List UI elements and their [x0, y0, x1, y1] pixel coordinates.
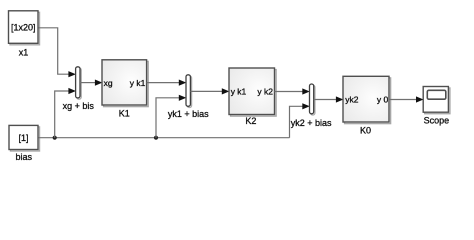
- wire bias branch to mux M2: [156, 98, 179, 138]
- scope block: [423, 87, 450, 114]
- svg-text:x1: x1: [19, 48, 29, 58]
- svg-text:yk2 + bias: yk2 + bias: [291, 118, 332, 128]
- svg-text:xg: xg: [104, 78, 113, 88]
- svg-text:K2: K2: [245, 116, 256, 126]
- subsystem K1: [102, 60, 148, 107]
- svg-text:y k2: y k2: [257, 87, 273, 97]
- wire bias trunk: [39, 137, 290, 139]
- wire K0 to Scope: [389, 99, 416, 101]
- svg-text:[1x20]: [1x20]: [11, 23, 36, 33]
- wire mux M1 to K1: [80, 82, 95, 84]
- subsystem K0: [343, 76, 391, 123]
- constant block x1 [1x20]: [9, 11, 40, 45]
- mux M1: [76, 67, 82, 99]
- svg-text:y 0: y 0: [377, 95, 389, 105]
- svg-text:Scope: Scope: [424, 115, 450, 125]
- constant block bias [1]: [9, 125, 40, 151]
- mux M3: [310, 84, 315, 115]
- subsystem K2: [229, 68, 276, 116]
- junction dot J2: [154, 136, 158, 140]
- wire mux M2 to K2: [190, 90, 222, 92]
- wire mux M3 to K0: [314, 99, 336, 101]
- mux M2: [186, 75, 192, 108]
- svg-text:K0: K0: [360, 126, 371, 136]
- svg-text:[1]: [1]: [18, 133, 28, 143]
- wire x1 to mux M1: [39, 28, 69, 74]
- svg-text:xg + bis: xg + bis: [63, 101, 95, 111]
- wire K1 to mux M2: [147, 82, 179, 84]
- junction dot J1: [53, 136, 57, 140]
- svg-text:y k1: y k1: [130, 78, 146, 88]
- svg-text:yk2: yk2: [345, 95, 359, 105]
- svg-text:bias: bias: [15, 152, 32, 162]
- wire K2 to mux M3: [275, 91, 303, 93]
- wire bias branch to mux M3: [290, 106, 303, 137]
- svg-text:yk1 + bias: yk1 + bias: [168, 109, 209, 119]
- svg-text:K1: K1: [119, 109, 130, 119]
- wire bias branch to mux M1: [55, 91, 69, 138]
- svg-text:y k1: y k1: [231, 87, 247, 97]
